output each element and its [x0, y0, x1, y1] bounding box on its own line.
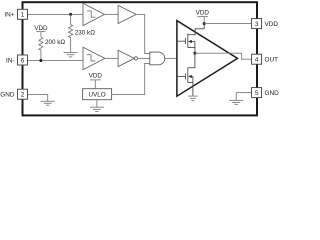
node: output stage mid node — [193, 52, 196, 55]
ground (below UVLO) — [90, 100, 104, 112]
wire GND pin 2 — [28, 93, 48, 95]
wire AND to output stage — [165, 57, 177, 59]
svg-text:1: 1 — [21, 12, 25, 19]
buffer U2 — [118, 5, 136, 23]
ground (pin 2) — [41, 94, 55, 105]
pin 2 box — [18, 89, 28, 99]
transistor Q2 (NMOS) — [177, 53, 195, 96]
svg-text:230 kΩ: 230 kΩ — [75, 30, 95, 37]
comparator U3 (with hysteresis) — [83, 47, 105, 69]
VDD supply symbol (above R2) — [36, 32, 45, 37]
svg-text:VDD: VDD — [34, 25, 48, 32]
inverter bubble (U4) — [134, 57, 137, 60]
svg-text:5: 5 — [255, 90, 259, 97]
transistor Q1 (PMOS) — [177, 24, 204, 54]
svg-text:GND: GND — [0, 92, 15, 99]
ground (output stage) — [188, 96, 197, 101]
UVLO block — [83, 89, 112, 100]
pin 6 box — [18, 55, 28, 65]
pin 5 box — [252, 88, 262, 98]
wire U3 to inverter — [105, 57, 118, 59]
wire IN+ to comparator A — [28, 13, 84, 15]
svg-text:VDD: VDD — [265, 21, 279, 28]
svg-text:OUT: OUT — [265, 57, 279, 64]
svg-text:VDD: VDD — [196, 10, 210, 17]
svg-text:2: 2 — [21, 92, 25, 99]
svg-text:GND: GND — [265, 90, 280, 97]
resistor R2 200 kOhm — [39, 37, 43, 60]
wire buffer to AND top input — [136, 14, 150, 53]
transistor Q1 body arrow — [188, 40, 192, 43]
ground (below R1) — [64, 53, 78, 57]
node: junction R2 / IN- wire — [39, 59, 42, 62]
node: VDD junction — [203, 22, 206, 25]
node: junction R1 / IN+ wire — [69, 13, 72, 16]
wire output node to pin 4 — [195, 53, 252, 59]
wire UVLO to AND bottom input — [112, 64, 150, 95]
svg-text:IN+: IN+ — [4, 12, 14, 19]
VDD supply symbol (top) — [198, 17, 208, 24]
svg-text:200 kΩ: 200 kΩ — [45, 39, 65, 46]
comparator U1 (with hysteresis) — [83, 3, 104, 25]
hysteresis symbol (U1) — [87, 11, 96, 17]
wire VDD to pin 3 — [204, 23, 251, 25]
ground (pin 5) — [229, 93, 243, 105]
VDD supply symbol (above UVLO) — [90, 80, 101, 89]
svg-text:4: 4 — [255, 57, 259, 64]
op-amp output stage triangle — [177, 21, 238, 97]
wire IN- to comparator B — [28, 59, 84, 61]
resistor R1 230 kOhm — [69, 14, 73, 52]
inverter U4 — [118, 50, 134, 66]
svg-text:UVLO: UVLO — [89, 92, 106, 99]
svg-text:VDD: VDD — [89, 73, 103, 80]
transistor Q2 body arrow — [188, 75, 192, 78]
wire GND pin 5 — [236, 92, 251, 94]
svg-text:3: 3 — [255, 21, 259, 28]
pin 3 box — [252, 19, 262, 29]
IC boundary — [23, 2, 258, 115]
pin 1 box — [18, 9, 28, 19]
hysteresis symbol (U3) — [87, 55, 96, 61]
wire U1 to buffer — [104, 13, 118, 15]
svg-text:IN-: IN- — [6, 57, 15, 64]
AND gate U5 — [150, 52, 165, 65]
svg-text:6: 6 — [21, 57, 25, 64]
pin 4 box — [252, 54, 262, 64]
wire inverter to AND middle input — [138, 57, 150, 59]
